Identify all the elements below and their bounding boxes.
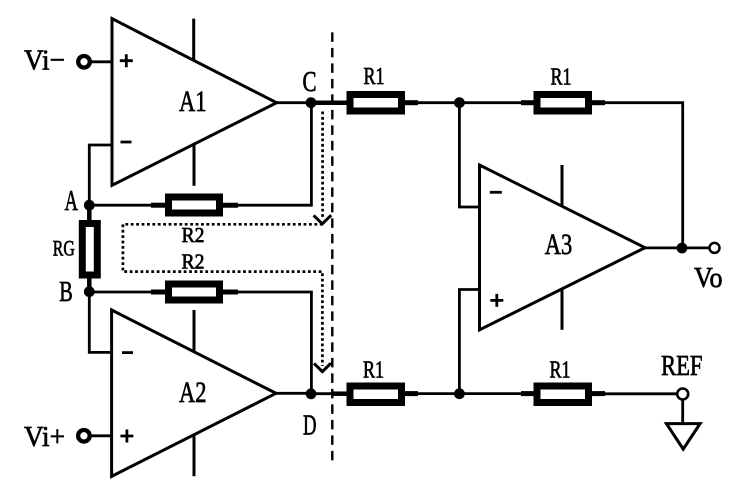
- terminal Vi+: [78, 430, 90, 442]
- R1 bottom first right lead: [404, 391, 418, 396]
- wire R2 bottom to node D: [237, 292, 311, 390]
- svg-text:R1: R1: [363, 358, 384, 384]
- resistor R1 (top first): [350, 95, 402, 112]
- node C: [306, 97, 317, 108]
- terminal Vo: [710, 243, 720, 253]
- resistor RG: [82, 224, 97, 276]
- A2 minus symbol: [122, 351, 133, 354]
- resistor R1 (top second): [537, 95, 589, 112]
- svg-text:R1: R1: [364, 64, 385, 90]
- wire node D to R1 bottom: [311, 392, 335, 395]
- resistor R1 (bottom first): [350, 386, 402, 403]
- R2 bottom left lead: [151, 290, 167, 295]
- svg-text:R1: R1: [551, 65, 572, 91]
- terminal REF: [677, 389, 688, 400]
- wire REF to ground: [681, 399, 684, 424]
- wire R1 to top junction: [417, 101, 459, 104]
- dotted flow path from C: [321, 112, 324, 218]
- R2 top right lead: [221, 203, 238, 208]
- arrowhead 1: [314, 215, 332, 224]
- A2 bottom power pin: [193, 434, 196, 476]
- svg-text:A3: A3: [545, 229, 573, 261]
- wire node C to R1: [311, 100, 348, 105]
- svg-text:C: C: [303, 66, 317, 98]
- svg-text:Vi+: Vi+: [24, 421, 65, 453]
- terminal Vi-: [78, 56, 90, 68]
- wire R2 top to node C: [237, 106, 311, 205]
- top junction node: [454, 97, 465, 108]
- A3 plus symbol: [490, 294, 503, 307]
- svg-text:A2: A2: [179, 377, 207, 409]
- wire Vi+ to A2: [92, 434, 113, 437]
- R1 bottom first left lead: [333, 391, 348, 396]
- wire A1 output to node C: [276, 101, 311, 104]
- svg-text:R2: R2: [182, 223, 205, 247]
- R2 top left lead: [151, 203, 167, 208]
- svg-text:B: B: [59, 276, 73, 308]
- R1 bottom second right lead: [591, 391, 605, 396]
- dashed boundary line: [331, 32, 333, 463]
- node D: [306, 388, 317, 399]
- svg-text:Vi−: Vi−: [24, 45, 65, 77]
- ground: [666, 424, 700, 450]
- wire bottom junction to A3 non-inverting input: [459, 290, 479, 394]
- wire node B to A2 inverting input: [89, 292, 112, 353]
- A1 bottom power pin: [193, 145, 196, 186]
- wire R1 to bottom junction: [417, 392, 459, 395]
- arrowhead 2: [314, 363, 331, 371]
- RG bottom lead: [87, 278, 92, 292]
- wire Vi- to A1 + input: [92, 60, 113, 63]
- node Vo junction: [677, 243, 688, 254]
- op-amp A3: [480, 165, 646, 330]
- svg-text:R2: R2: [182, 250, 205, 274]
- RG top lead: [87, 205, 92, 221]
- A1 plus symbol: [120, 54, 133, 67]
- A1 minus symbol: [121, 141, 132, 144]
- R2 bottom right lead: [221, 290, 238, 295]
- R1 top second right lead: [591, 100, 605, 105]
- wire A1 inverting input to node A: [89, 145, 112, 205]
- svg-text:A1: A1: [179, 86, 207, 118]
- A2 top power pin: [193, 310, 196, 352]
- svg-text:REF: REF: [661, 350, 703, 382]
- wire top junction to R1 second: [459, 101, 523, 104]
- A3 top power pin: [561, 165, 564, 206]
- svg-text:A: A: [65, 185, 79, 217]
- R1 top first right lead: [404, 100, 418, 105]
- svg-text:RG: RG: [53, 235, 75, 260]
- op-amp A2: [112, 310, 276, 476]
- wire top junction to A3 inverting input: [459, 103, 479, 207]
- node B: [84, 286, 95, 297]
- wire node A to R2 top: [89, 204, 154, 207]
- wire feedback to output node: [604, 103, 683, 248]
- A2 plus symbol: [120, 430, 133, 443]
- wire A3 output to Vo: [644, 246, 711, 249]
- R1 bottom second left lead: [521, 391, 536, 396]
- A1 top power pin: [192, 19, 195, 61]
- svg-text:R1: R1: [550, 358, 571, 384]
- resistor R2 (top): [169, 197, 220, 213]
- A3 bottom power pin: [561, 289, 564, 330]
- dotted flow path loop to D: [123, 224, 323, 366]
- bottom junction node: [454, 388, 465, 399]
- A3 minus symbol: [490, 191, 502, 194]
- svg-text:Vo: Vo: [694, 262, 723, 294]
- wire node B to R2 bottom: [89, 291, 154, 294]
- node A: [84, 200, 95, 211]
- resistor R2 (bottom): [169, 284, 220, 300]
- R1 top second left lead: [521, 100, 536, 105]
- wire to REF terminal: [604, 392, 678, 395]
- resistor R1 (bottom second): [537, 386, 589, 403]
- svg-text:D: D: [303, 409, 317, 441]
- wire A2 output to node D: [275, 392, 311, 395]
- op-amp A1: [112, 19, 277, 186]
- wire bottom junction to R1 second: [459, 392, 523, 395]
